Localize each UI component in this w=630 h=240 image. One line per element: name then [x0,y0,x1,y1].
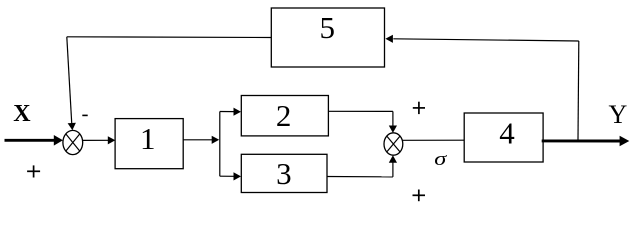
block 4 [464,113,543,162]
plus sign (below S2) [413,190,426,202]
block 1 [115,119,183,169]
wire block 1 to branch node [183,136,219,144]
feedback tap node vertical wire [577,41,580,140]
plus sign (above S2) [413,102,425,114]
wire S1 to block 1 [83,136,116,144]
branch node vertical wire [219,112,221,177]
plus sign (input) [27,165,40,177]
svg-text:2: 2 [276,98,292,133]
summing junction S2 [384,133,403,155]
svg-text:1: 1 [140,121,156,156]
block 3 [241,154,327,192]
svg-text:3: 3 [276,156,292,191]
wire block 3 to S2 [327,155,397,177]
svg-text:5: 5 [319,10,335,45]
feedback wire to block 5 [385,35,578,43]
block 2 [241,96,328,136]
wire S2 to block 4 [402,139,464,141]
svg-text:Y: Y [609,100,628,129]
output Y thick arrow [542,136,630,147]
block 5 [271,8,384,67]
svg-text:σ: σ [434,149,447,170]
svg-text:X: X [13,101,31,127]
minus sign [82,115,87,117]
summing junction S1 [63,130,83,154]
input X thick arrow [5,135,63,146]
svg-text:4: 4 [499,116,515,151]
wire branch to block 3 [220,172,241,180]
wire branch to block 2 [220,108,241,116]
wire block 2 to S2 [328,111,397,133]
feedback wire block 5 to S1 [67,37,271,130]
